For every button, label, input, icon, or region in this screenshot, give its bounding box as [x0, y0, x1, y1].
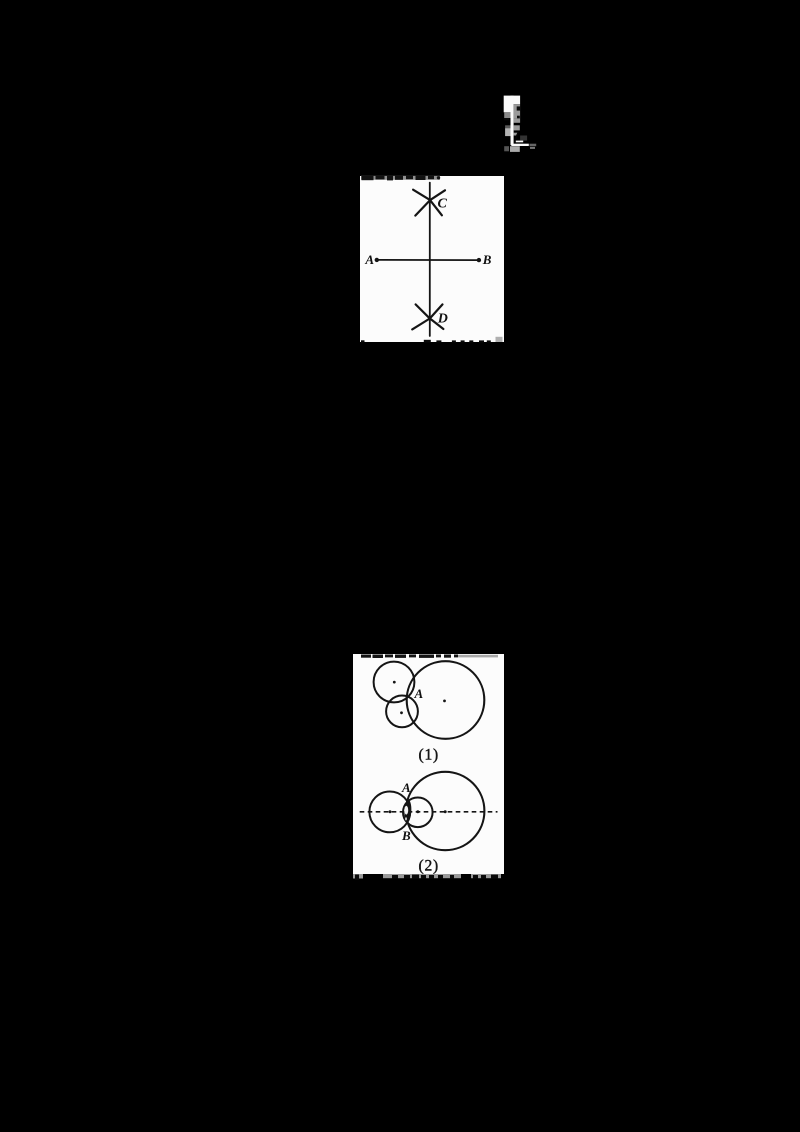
svg-text:D: D	[437, 312, 448, 327]
svg-text:(1): (1)	[419, 746, 439, 763]
svg-text:A: A	[401, 780, 411, 795]
svg-text:A: A	[364, 252, 374, 267]
svg-text:B: B	[401, 828, 411, 843]
svg-text:C: C	[438, 197, 448, 212]
svg-text:B: B	[482, 252, 492, 267]
svg-text:A: A	[414, 686, 424, 701]
svg-text:(2): (2)	[419, 857, 439, 874]
